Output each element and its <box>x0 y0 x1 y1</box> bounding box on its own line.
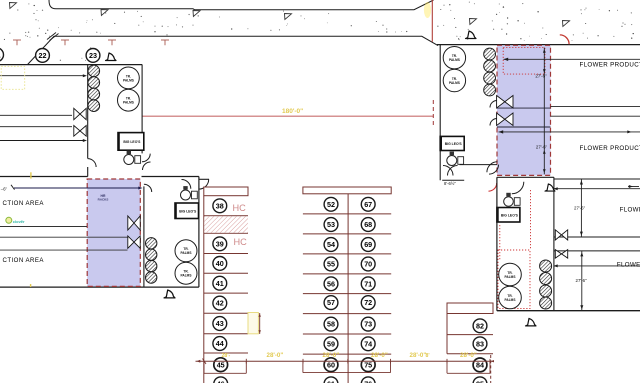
door symbol plaza <box>466 31 477 39</box>
stall circle 75 <box>361 358 375 372</box>
palm circle 5 <box>443 47 465 69</box>
stall circle 59 <box>324 337 338 351</box>
hc hatch stall <box>204 216 248 232</box>
restroom fixture 2 <box>181 186 198 200</box>
drive aisle line <box>196 359 494 365</box>
stall circle 74 <box>361 337 375 351</box>
svg-text:40: 40 <box>216 259 224 268</box>
yellow dim at 221.5 <box>222 353 231 359</box>
svg-text:43: 43 <box>216 319 224 328</box>
door pair 3 <box>128 216 140 230</box>
red dotted v2 <box>499 225 501 260</box>
stall header right <box>447 303 493 314</box>
hc text 2 <box>234 237 248 247</box>
svg-text:180'-0": 180'-0" <box>282 108 303 115</box>
svg-text:72: 72 <box>364 298 372 307</box>
grid tick T4 <box>161 40 169 45</box>
svg-text:28'-0": 28'-0" <box>371 352 388 359</box>
rb bottom wall <box>497 310 640 312</box>
yellow dim at 425.5 <box>426 353 430 359</box>
stall circle 68 <box>361 218 375 232</box>
lower bldg right wall <box>198 177 200 288</box>
stall circle 52 <box>324 197 338 211</box>
stall circle 44 <box>213 337 227 351</box>
stall circle 55 <box>324 257 338 271</box>
svg-text:PALMS: PALMS <box>505 298 516 302</box>
rb mid wall <box>553 177 555 310</box>
stall circle 41 <box>213 276 227 290</box>
svg-text:68: 68 <box>364 220 372 229</box>
yellow zone stall 43 <box>248 313 258 334</box>
svg-text:PALMS: PALMS <box>181 251 192 255</box>
curb flag c <box>193 11 200 17</box>
svg-text:CTION AREA: CTION AREA <box>3 257 45 264</box>
svg-text:28'-0": 28'-0" <box>323 352 340 359</box>
palm circle 2 <box>117 89 139 111</box>
svg-text:27'-6": 27'-6" <box>574 206 586 211</box>
vest2 wall b <box>442 179 464 181</box>
palm circle 7 <box>499 263 522 286</box>
dim text 180-0 yellow <box>282 108 303 115</box>
dim text 27-6 d <box>576 278 588 283</box>
svg-text:FLOWER: FLOWER <box>617 261 640 268</box>
svg-text:44: 44 <box>216 339 224 348</box>
stall circle 39 <box>213 237 227 251</box>
interior line right1 <box>551 105 640 107</box>
stall circle 67 <box>361 197 375 211</box>
yellow dim at 322.5 <box>323 352 340 359</box>
curb flag a <box>10 3 17 9</box>
rack line D <box>0 139 87 142</box>
flower leader 2 <box>499 130 640 133</box>
stall circle 23 <box>86 49 100 63</box>
yellow tick a <box>30 172 32 178</box>
svg-text:PALMS: PALMS <box>181 274 192 278</box>
stall circle 73 <box>361 317 375 331</box>
rb leader 2 <box>554 264 640 267</box>
svg-text:61: 61 <box>327 379 335 383</box>
stall circle 85 <box>473 377 487 383</box>
stall circle 56 <box>324 277 338 291</box>
rack line A <box>0 74 87 77</box>
svg-text:22: 22 <box>39 51 47 60</box>
door arc corner <box>199 179 209 189</box>
svg-text:PALMS: PALMS <box>123 101 134 105</box>
flower text 3 <box>620 207 640 214</box>
red lot line vertical <box>431 0 433 42</box>
dim tick left <box>1 185 15 192</box>
rb left wall <box>496 177 498 310</box>
svg-text:CTION AREA: CTION AREA <box>3 200 45 207</box>
palm circle 1 <box>117 67 139 89</box>
svg-text:8'-6½": 8'-6½" <box>444 181 456 186</box>
svg-text:82: 82 <box>476 321 484 330</box>
rb line 2 <box>554 250 640 252</box>
rack line E <box>14 187 143 190</box>
stall circle 54 <box>324 238 338 252</box>
vest2 wall a <box>460 164 498 166</box>
svg-text:PALMS: PALMS <box>505 275 516 279</box>
svg-text:28'-: 28'- <box>222 353 231 359</box>
svg-text:56: 56 <box>327 279 335 288</box>
rack line G <box>0 236 128 238</box>
red door arc <box>489 183 497 191</box>
svg-text:27'-6": 27'-6" <box>535 74 547 79</box>
svg-text:BIG LEO'S: BIG LEO'S <box>179 209 197 213</box>
stall circle 83 <box>473 337 487 351</box>
yellow highlight at plaza edge <box>424 2 431 18</box>
production text 1 <box>3 200 45 207</box>
svg-text:42: 42 <box>216 299 224 308</box>
stall circle 69 <box>361 238 375 252</box>
expansion joint tick <box>47 33 59 41</box>
stall circle 53 <box>324 218 338 232</box>
svg-text:57: 57 <box>327 298 335 307</box>
svg-text:BIG LEO'S: BIG LEO'S <box>123 140 141 144</box>
flower text 1 <box>580 62 640 69</box>
lower bldg bottom wall <box>0 286 199 288</box>
red dotted v1 <box>530 190 532 250</box>
stall circle 61 <box>324 377 338 383</box>
door arc vest3 <box>512 182 527 194</box>
stall circle 38 <box>213 199 227 213</box>
svg-text:27'-6": 27'-6" <box>576 278 588 283</box>
rb line 1 <box>554 236 640 238</box>
concrete stipple <box>4 2 634 61</box>
svg-text:38: 38 <box>216 201 224 210</box>
stall circle 43 <box>213 317 227 331</box>
rb top wall seg <box>497 176 554 178</box>
rack line F <box>0 226 87 228</box>
zone label navy <box>98 194 109 202</box>
door pair 7 <box>555 230 567 240</box>
door symbol near 23 <box>106 53 117 61</box>
door arc wall1 <box>88 159 96 168</box>
palm circle 8 <box>499 286 522 309</box>
dim v right 1 <box>580 179 583 237</box>
stall column middle centerline <box>347 194 349 383</box>
svg-text:53: 53 <box>327 220 335 229</box>
stall column right edges <box>446 314 448 354</box>
svg-text:52: 52 <box>327 200 335 209</box>
svg-text:clovẽr: clovẽr <box>13 219 25 224</box>
svg-text:41: 41 <box>216 279 224 288</box>
left bldg inner wall v1 <box>87 65 89 177</box>
stall circle 40 <box>213 257 227 271</box>
svg-text:54: 54 <box>327 240 335 249</box>
svg-text:PALMS: PALMS <box>449 58 460 62</box>
dim line vertical lav <box>543 48 546 175</box>
production text 2 <box>3 257 45 264</box>
svg-text:59: 59 <box>327 339 335 348</box>
stall circle 57 <box>324 296 338 310</box>
door arc lav2a <box>490 101 497 108</box>
right bldg top wall <box>437 44 640 46</box>
stall header middle <box>303 187 391 194</box>
red door arc plaza <box>560 35 569 44</box>
svg-text:83: 83 <box>476 339 484 348</box>
door pair 8 <box>555 250 567 259</box>
door arc vest2a <box>443 166 453 176</box>
restroom fixture 3 <box>447 152 464 166</box>
palm circle 6 <box>443 69 465 91</box>
stall circle 71 <box>361 277 375 291</box>
stall dividers left <box>204 216 248 353</box>
racking zone lavender 2 <box>497 45 551 175</box>
svg-text:PALMS: PALMS <box>123 78 134 82</box>
svg-text:−6": −6" <box>1 187 8 192</box>
column circles col4 <box>540 260 552 309</box>
svg-text:58: 58 <box>327 320 335 329</box>
svg-text:FLOWER: FLOWER <box>620 207 640 214</box>
dim text 27-6 c <box>574 206 586 211</box>
flower text 4 <box>617 261 640 268</box>
big leos sign 2 <box>175 203 199 219</box>
stall circle 22 <box>36 49 50 63</box>
column circles col3 <box>484 48 496 96</box>
rack line H <box>0 249 128 251</box>
rb wall line 180 <box>554 178 640 180</box>
lower bldg inner wall <box>143 186 145 287</box>
door arc vest1 <box>142 154 151 170</box>
palm circle 4 <box>175 262 197 284</box>
door symbol lower bldg <box>164 290 175 298</box>
door pair 1 <box>74 108 86 119</box>
svg-text:BIG LEO'S: BIG LEO'S <box>501 213 519 217</box>
svg-text:67: 67 <box>364 200 372 209</box>
grid tick T2 <box>61 40 69 45</box>
interior line lav2 <box>497 126 551 128</box>
svg-text:55: 55 <box>327 260 335 269</box>
svg-text:71: 71 <box>364 279 372 288</box>
column circles col2 <box>146 238 157 284</box>
svg-text:8': 8' <box>426 353 430 359</box>
aisle bracket left <box>204 361 246 373</box>
svg-text:28'-0": 28'-0" <box>460 352 477 359</box>
big leos sign 4 <box>497 208 520 223</box>
plaza flag f <box>563 21 570 27</box>
column circles col1 <box>88 65 100 111</box>
flower leader 1 <box>504 58 640 61</box>
door pair 5 <box>497 96 513 109</box>
svg-text:RACKS: RACKS <box>98 198 109 202</box>
yellow dim at 371 <box>371 352 388 359</box>
stall circle 70 <box>361 257 375 271</box>
stall circle 72 <box>361 296 375 310</box>
svg-text:FLOWER PRODUCTS: FLOWER PRODUCTS <box>580 62 640 69</box>
door arc lav2c <box>487 162 498 173</box>
svg-text:28'-0": 28'-0" <box>410 352 427 359</box>
stall circle 60 <box>324 358 338 372</box>
dim text 27-6 b <box>536 145 548 150</box>
big leos sign 1 <box>118 133 144 151</box>
big leos sign 3 <box>440 136 464 150</box>
svg-text:28'-0": 28'-0" <box>267 352 284 359</box>
door pair 4 <box>128 236 140 248</box>
door pair 2 <box>74 126 86 137</box>
svg-text:74: 74 <box>364 339 372 348</box>
stall circle 76 <box>361 377 375 383</box>
door arc vest2b <box>448 166 458 176</box>
svg-text:76: 76 <box>364 379 372 383</box>
svg-text:73: 73 <box>364 320 372 329</box>
restroom fixture 1 <box>124 151 141 165</box>
stall circle 46 <box>214 377 228 383</box>
interior line lav1 <box>497 107 551 109</box>
svg-text:27'-6": 27'-6" <box>536 145 548 150</box>
svg-text:21: 21 <box>0 50 1 59</box>
stall circle 21 <box>0 48 4 62</box>
svg-text:85: 85 <box>476 379 484 383</box>
yellow dim at 266.5 <box>267 352 284 359</box>
door arc toilet2 <box>182 180 191 189</box>
yellow tick b <box>30 284 32 287</box>
dim v right 2 <box>580 251 583 311</box>
red dotted zone palms <box>498 250 530 309</box>
left bldg top wall <box>0 64 142 66</box>
svg-text:23: 23 <box>89 51 97 60</box>
svg-text:FLOWER PRODUCTS: FLOWER PRODUCTS <box>580 145 640 152</box>
svg-text:46: 46 <box>217 379 225 383</box>
stall dividers right <box>447 335 493 354</box>
lease line red <box>142 115 433 117</box>
yellow dim at 409.5 <box>410 352 427 359</box>
stall header left <box>204 187 248 196</box>
grid tick T3 <box>108 40 116 45</box>
svg-text:BIG LEO'S: BIG LEO'S <box>445 142 463 146</box>
logo mark <box>6 217 25 224</box>
door arc lower1 <box>144 184 152 192</box>
oa dim mark <box>627 130 631 133</box>
svg-text:HC: HC <box>233 203 247 213</box>
door arc lav2b <box>490 119 497 126</box>
door symbol rb <box>545 184 555 191</box>
sidewalk top edge <box>49 0 434 10</box>
stall column left edge <box>203 196 205 383</box>
door symbol rb2 <box>526 318 537 326</box>
arrow mark right edge <box>628 185 639 188</box>
svg-text:70: 70 <box>364 260 372 269</box>
left bldg right wall <box>141 65 143 154</box>
grid tick T1 <box>13 40 21 45</box>
plaza flag e <box>470 19 477 25</box>
flower text 2 <box>580 145 640 152</box>
curb flag b <box>101 10 108 16</box>
stall circle 84 <box>473 358 487 372</box>
svg-text:39: 39 <box>216 239 224 248</box>
rb leader 1 <box>554 187 640 190</box>
svg-text:HC: HC <box>234 237 248 247</box>
svg-text:PALMS: PALMS <box>449 81 460 85</box>
svg-text:69: 69 <box>364 240 372 249</box>
yellow dashed zone <box>1 66 25 89</box>
stall circle 58 <box>324 317 338 331</box>
door arc vest2c <box>489 165 499 175</box>
dim text vest2 <box>444 181 456 186</box>
stall 84 dashed edge <box>491 355 494 383</box>
hc text 1 <box>233 203 247 213</box>
dim bracket stall 43 <box>259 313 261 334</box>
interior line right2 <box>551 115 640 117</box>
red dotted zone top <box>503 48 545 75</box>
curb flag d <box>285 14 292 20</box>
aisle bracket right <box>447 361 490 373</box>
racking zone lavender 1 <box>87 179 140 286</box>
stall circle 45 <box>214 358 228 372</box>
rack line B <box>0 114 72 116</box>
dim text 27-6 a <box>535 74 547 79</box>
stall dividers middle <box>303 214 391 354</box>
sidewalk bottom edge <box>28 36 438 64</box>
restroom fixture 4 <box>504 193 520 207</box>
rack line C <box>0 126 72 128</box>
right bldg left wall <box>439 45 441 181</box>
aisle bracket middle <box>303 361 391 372</box>
red dash top <box>432 100 434 126</box>
palm circle 3 <box>175 240 197 262</box>
stall circle 82 <box>473 319 487 333</box>
svg-text:84: 84 <box>476 361 484 370</box>
yellow dim at 460 <box>460 352 477 359</box>
stall circle 42 <box>213 296 227 310</box>
door pair 6 <box>497 113 513 126</box>
lower bldg top wall <box>0 176 199 178</box>
